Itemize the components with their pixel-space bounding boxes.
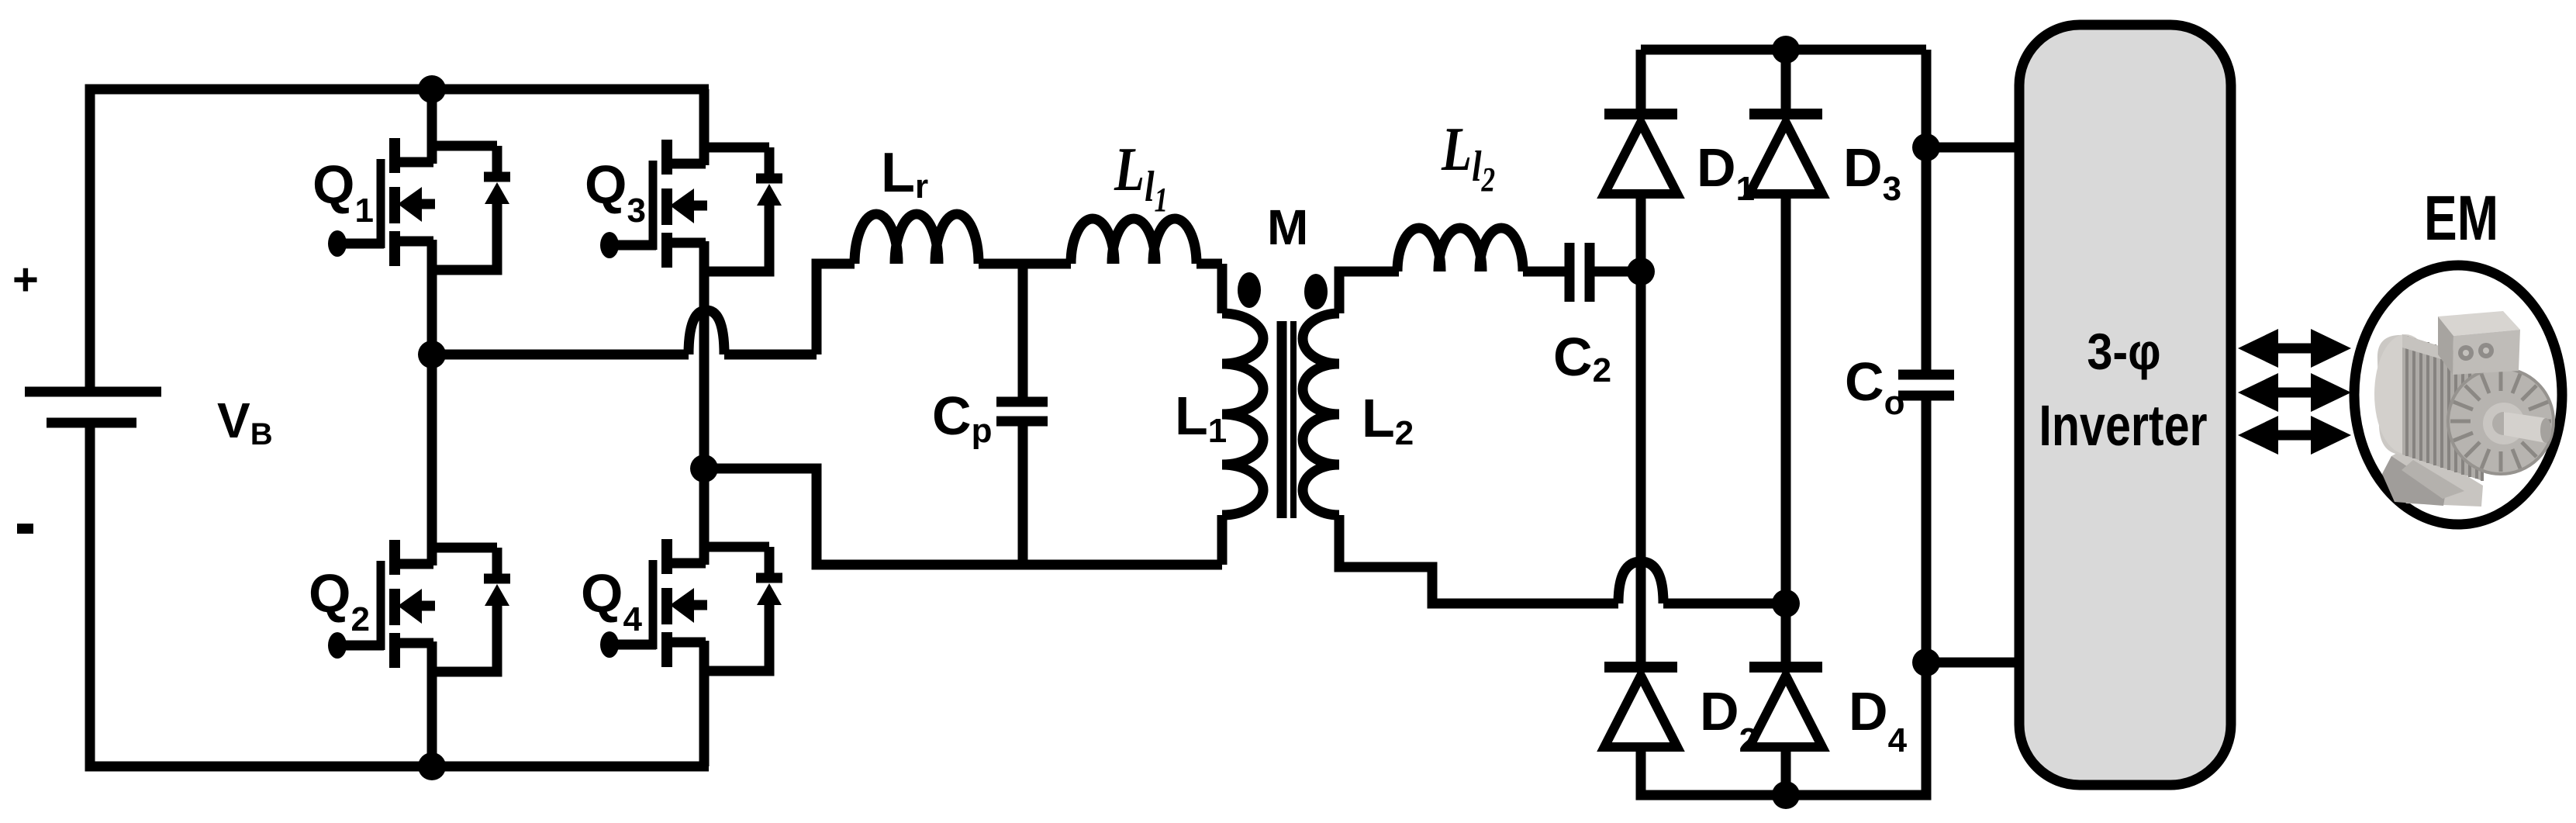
wire Q4 drain	[699, 469, 710, 547]
motor base feet	[2382, 444, 2483, 507]
node polarity dot secondary	[1304, 274, 1328, 309]
diode D1	[1604, 114, 1677, 194]
svg-text:L2: L2	[1362, 388, 1414, 452]
diode D3	[1749, 114, 1822, 194]
block 3-phase inverter	[2019, 25, 2231, 785]
svg-text:EM: EM	[2424, 182, 2498, 254]
node bottom rail junction	[418, 752, 446, 780]
svg-text:Ll1: Ll1	[1114, 134, 1168, 219]
svg-text:Q1: Q1	[313, 154, 374, 230]
svg-text:Q3: Q3	[585, 154, 646, 230]
wire D4 anode	[1781, 747, 1791, 795]
inductor Lr	[855, 214, 979, 264]
label -	[17, 524, 33, 534]
svg-text:Cp: Cp	[932, 386, 992, 450]
svg-text:Q4: Q4	[581, 563, 642, 638]
arrow phase c	[2238, 416, 2351, 455]
svg-text:3-φ: 3-φ	[2087, 323, 2160, 381]
wire Q3 drain	[699, 89, 710, 147]
arrow phase b	[2238, 373, 2351, 412]
svg-text:C2: C2	[1553, 327, 1611, 389]
diode D2	[1604, 667, 1677, 747]
motor hub and shaft	[2483, 403, 2525, 444]
wire Ll2 to C2	[1523, 267, 1565, 277]
transistor Q2	[328, 540, 510, 673]
transistor Q3	[600, 140, 782, 273]
battery VB	[25, 392, 161, 423]
wire Q1 drain	[427, 89, 437, 146]
transistor Q1	[328, 138, 510, 271]
svg-text:L1: L1	[1175, 386, 1227, 450]
wire Q3 source	[699, 273, 710, 469]
svg-text:M: M	[1267, 199, 1308, 255]
inductor Ll2	[1397, 228, 1523, 271]
svg-text:D4: D4	[1849, 681, 1908, 759]
transformer secondary L2	[1303, 313, 1339, 515]
wire Q2 drain	[427, 354, 437, 548]
wire D1 anode	[1636, 194, 1646, 271]
svg-text:D3: D3	[1843, 137, 1901, 208]
wire hop over leg2	[689, 310, 724, 354]
node A leg1 midpoint	[418, 341, 446, 368]
capacitor Co	[1898, 50, 1954, 662]
transistor Q4	[600, 539, 782, 673]
node polarity dot primary	[1238, 272, 1261, 308]
motor terminal box	[2438, 311, 2520, 336]
wire D3 cathode	[1781, 50, 1791, 109]
svg-text:Inverter: Inverter	[2039, 394, 2207, 458]
wire Q2 source	[427, 673, 437, 766]
node bridge bottom junction	[1772, 781, 1800, 809]
motor front shroud	[2448, 368, 2554, 474]
inductor Ll1	[1071, 219, 1196, 264]
wire to D3D4 column	[1663, 599, 1786, 609]
node top rail junction	[418, 75, 446, 103]
svg-text:Ll2: Ll2	[1441, 114, 1495, 199]
wire Lr to Ll1	[979, 259, 1071, 269]
wire bridge top rail	[1641, 45, 1926, 55]
EM machine circle	[2354, 265, 2562, 524]
transformer core	[1277, 321, 1287, 518]
wire Q4 source	[699, 672, 710, 766]
node bridge top junction	[1772, 36, 1800, 64]
wire D2 anode to rail	[1641, 662, 1926, 795]
wire bottom rail	[90, 427, 709, 766]
capacitor C2	[1569, 243, 1590, 302]
svg-text:VB: VB	[217, 392, 273, 451]
wire to Lr	[724, 264, 855, 354]
wire leg1 mid to tank	[432, 350, 689, 360]
svg-text:Co: Co	[1845, 351, 1904, 422]
wire leg2 mid to tank bottom	[704, 469, 1222, 565]
wire hop over D column	[1618, 562, 1663, 603]
wire D2 column	[1636, 271, 1646, 667]
wire inverter top input	[1926, 143, 2019, 153]
wire Q1 source	[427, 271, 437, 354]
label Ll2	[1441, 114, 1495, 199]
label EM	[2424, 182, 2498, 254]
label 3-phi	[2087, 323, 2160, 381]
wire C2 to node	[1594, 267, 1641, 277]
label Ll1	[1114, 134, 1168, 219]
wire Ll1 to L1	[1196, 264, 1222, 313]
EM motor image	[2374, 311, 2554, 507]
node Co bottom	[1912, 648, 1940, 676]
diode D4	[1749, 667, 1822, 747]
motor finned body	[2402, 334, 2483, 481]
node Co top	[1912, 133, 1940, 161]
capacitor Cp	[996, 264, 1048, 565]
label Inverter	[2039, 394, 2207, 458]
svg-text:Q2: Q2	[309, 563, 370, 638]
wire D1 cathode	[1636, 50, 1646, 109]
arrow phase a	[2238, 329, 2351, 368]
node C2 output	[1627, 258, 1655, 285]
wire D3 to D4	[1781, 194, 1791, 667]
wire L1 bottom stem	[1217, 515, 1228, 565]
svg-text:+: +	[12, 254, 39, 305]
transformer primary L1	[1222, 313, 1263, 515]
svg-text:Lr: Lr	[881, 142, 928, 206]
wire L2 bottom	[1339, 515, 1618, 603]
wire L2 top stem	[1339, 271, 1399, 313]
node B leg2 midpoint	[690, 455, 718, 482]
motor rear cap	[2377, 335, 2405, 455]
wire top rail	[90, 89, 709, 387]
node D4 top junction	[1772, 590, 1800, 617]
wire inverter bottom input	[1926, 658, 2019, 668]
